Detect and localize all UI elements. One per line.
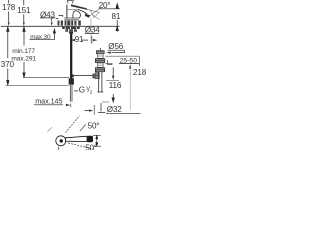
hose level line A bbox=[23, 77, 69, 79]
dimension min.177 max.291 bbox=[23, 27, 25, 46]
spout jog marks bbox=[59, 16, 63, 17]
waste waist bbox=[98, 63, 104, 67]
extension from outlet bbox=[90, 19, 92, 44]
shank bbox=[69, 32, 74, 35]
lever width dim bbox=[96, 136, 98, 146]
label G 1/2 bbox=[74, 90, 78, 92]
svg-text:max.291: max.291 bbox=[11, 55, 36, 62]
svg-text:Ø32: Ø32 bbox=[107, 105, 122, 114]
stray leader lower-left bbox=[47, 127, 52, 132]
dimension 178 bbox=[8, 0, 10, 3]
basin deck lower line bbox=[105, 63, 112, 65]
angle leader lines bbox=[87, 10, 99, 13]
thread level line B bbox=[6, 84, 69, 86]
lever handle bbox=[71, 4, 88, 10]
top view lever bbox=[66, 136, 87, 141]
waste plug head bbox=[96, 51, 104, 54]
svg-text:81: 81 bbox=[112, 12, 121, 21]
mounting washer bars bbox=[62, 27, 65, 29]
hose connector bbox=[69, 79, 74, 85]
waste nut 1 bbox=[95, 59, 105, 63]
spout bbox=[78, 9, 87, 13]
dimension 218 bbox=[129, 64, 131, 68]
pull rod bbox=[73, 75, 93, 77]
lever raised (cut off top) bbox=[67, 0, 73, 3]
dimension 370 bbox=[7, 27, 9, 58]
tick below circle bbox=[57, 147, 59, 150]
waste nut 2 bbox=[95, 68, 105, 72]
svg-text:178: 178 bbox=[2, 3, 16, 12]
supply hose bbox=[70, 35, 72, 79]
basin deck upper line bbox=[105, 55, 139, 57]
counter/deck line bbox=[1, 25, 120, 27]
swing dashed up bbox=[66, 116, 80, 133]
swing dashed down bbox=[68, 143, 95, 149]
svg-text:116: 116 bbox=[109, 81, 122, 90]
stream V mark bbox=[90, 10, 99, 18]
rod coupling nut bbox=[92, 74, 95, 79]
top view lever cap bbox=[87, 136, 93, 142]
dimension 91 bbox=[71, 39, 75, 41]
svg-text:2: 2 bbox=[90, 89, 93, 95]
waste tee bbox=[95, 73, 99, 79]
svg-text:50°: 50° bbox=[88, 121, 100, 130]
svg-text:151: 151 bbox=[17, 6, 31, 15]
dimension 151 bbox=[23, 0, 25, 5]
svg-text:min.177: min.177 bbox=[12, 48, 35, 55]
50deg leader bbox=[80, 124, 86, 131]
lever width ticks bbox=[93, 134, 101, 136]
faucet base pedestal bbox=[64, 17, 79, 19]
mounting nut bars bbox=[65, 29, 68, 32]
waste neck bbox=[98, 54, 104, 58]
base section bars bbox=[65, 20, 67, 25]
top view body circle bbox=[56, 136, 66, 146]
pop-up waste plug stem bbox=[99, 48, 101, 51]
tail extension marks bbox=[102, 101, 109, 103]
G1/2 threads bbox=[69, 84, 71, 102]
svg-text:91: 91 bbox=[75, 35, 84, 44]
tailpiece bbox=[98, 72, 100, 92]
svg-text:G: G bbox=[79, 86, 85, 95]
leader Ø43 bbox=[51, 18, 53, 22]
aerator bbox=[85, 14, 90, 18]
dimension 81 bbox=[116, 3, 118, 8]
faucet body bbox=[66, 5, 68, 19]
dimension 116 bbox=[108, 60, 113, 65]
deck hatch left bbox=[58, 21, 60, 26]
svg-text:50°: 50° bbox=[85, 144, 97, 150]
svg-text:218: 218 bbox=[133, 68, 147, 77]
deck hatch right bbox=[74, 21, 76, 26]
svg-text:370: 370 bbox=[1, 60, 15, 69]
svg-text:max.145: max.145 bbox=[35, 96, 62, 105]
lever tip dim mark bbox=[85, 110, 89, 112]
label Ø32 bbox=[100, 103, 102, 111]
